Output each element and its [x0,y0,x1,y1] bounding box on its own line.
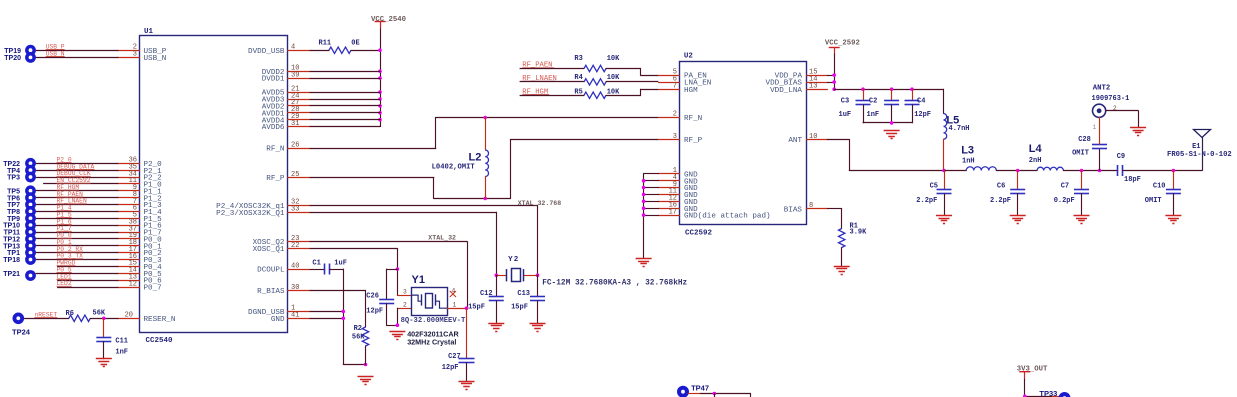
U1 pin 9 P1_1 stub [118,190,140,192]
U1 pin 12 P0_7 stub [118,287,140,289]
svg-text:R2: R2 [354,325,362,333]
svg-text:2.2pF: 2.2pF [916,197,937,205]
svg-text:TP47: TP47 [691,383,709,392]
U2 pin 12 GND stub [658,201,680,203]
ground below C11 [96,358,112,360]
U2 pin 10 ANT stub [806,139,828,141]
capacitor C27 [466,308,468,359]
testpoint TP20 [25,52,36,63]
inductor L5 [943,89,945,114]
U1 pin 14 P0_5 stub [118,273,140,275]
wire VDD pin to rail [310,112,381,114]
wire net RF_LNAEN [36,204,119,206]
svg-text:C13: C13 [517,290,530,298]
wire net LED1 [57,280,118,282]
testpoint TP6 [25,192,36,203]
U2 pin 7 HGM stub [658,89,680,91]
svg-text:R4: R4 [574,74,582,82]
svg-text:13: 13 [809,83,817,91]
power symbol VCC_2540 [375,21,386,23]
U1 pin 27 AVDD2 stub [287,105,310,107]
U1 pin 31 AVDD6 stub [287,126,310,128]
junction node C2 gnd [890,121,894,125]
antenna E1 [1194,130,1211,138]
U2 pin 6 LNA_EN stub [658,82,680,84]
svg-text:R6: R6 [66,310,74,318]
wire VDD pin to rail [310,78,381,80]
ground below C27 [459,381,475,383]
svg-text:R11: R11 [319,39,332,47]
wire R4 to U2 pin6 [606,81,659,83]
svg-text:RF_N: RF_N [266,146,284,154]
wire net RF_N [310,148,437,150]
wire VDD pin to rail [310,105,381,107]
wire DVDD_USB to R11 [310,50,330,52]
wire RF rail segment 3 [1063,170,1118,172]
svg-text:0.2pF: 0.2pF [1054,197,1075,205]
wire R1 to ground [841,247,843,266]
junction node 3V3_OUT [1023,395,1027,397]
wire RF_LNAEN [520,81,585,83]
ground below C7 [1074,215,1090,217]
svg-text:1nH: 1nH [962,158,975,166]
U1 pin 30 R_BIAS stub [287,290,310,292]
svg-text:XTAL_32.768: XTAL_32.768 [518,200,562,207]
svg-text:TP20: TP20 [4,55,21,62]
svg-text:ANT2: ANT2 [1093,85,1111,93]
testpoint TP24 [12,313,24,325]
ground below C13 [530,323,546,325]
junction node L2 top [483,116,487,120]
svg-text:25: 25 [291,171,299,179]
U2 pin 2 RF_N stub [658,117,680,119]
svg-text:22: 22 [291,242,299,250]
U1 pin 6 P1_4 stub [118,211,140,213]
svg-text:1: 1 [1093,124,1097,131]
wire net DEBUG_CLK [36,177,119,179]
wire TP47 net [700,393,751,395]
capacitor C9 [1117,165,1119,176]
svg-text:RF_P: RF_P [684,137,703,145]
svg-text:32MHz Crystal: 32MHz Crystal [407,338,456,347]
svg-text:FC-12M 32.7680KA-A3 , 32.768kH: FC-12M 32.7680KA-A3 , 32.768kHz [542,280,687,288]
svg-text:VCC_2540: VCC_2540 [371,16,406,24]
U1 pin 28 AVDD1 stub [287,112,310,114]
U1 pin 8 P1_2 stub [118,197,140,199]
wire BIAS net [827,208,842,210]
capacitor C5 [944,170,946,190]
testpoint TP21 [25,270,36,281]
svg-text:L0402,OMIT: L0402,OMIT [432,164,476,172]
junction node GND bus [642,179,646,183]
wire VDD pin to rail [310,92,381,94]
junction node decoupling cap [861,87,865,91]
wire net USB_N [36,57,119,59]
U1 pin 11 P1_0 stub [118,183,140,185]
wire net P1_4 [36,211,119,213]
capacitor C7 [1081,170,1083,190]
IC U2 CC2592 body [680,62,807,225]
junction node C28 [1098,169,1102,173]
resistor R4 [584,79,606,85]
ground below C5 [936,215,952,217]
junction node Y1 pin1/C27 [465,306,469,310]
svg-text:C3: C3 [841,98,849,106]
svg-text:GND: GND [271,316,285,324]
svg-text:12pF: 12pF [366,307,383,315]
wire VDD pin to rail [310,99,381,101]
testpoint TP4 [25,165,36,176]
svg-text:AVDD6: AVDD6 [262,124,285,132]
svg-text:TP18: TP18 [3,257,20,264]
wire VDD_LNA rail to L5 [834,89,944,91]
junction node C6 [1016,169,1020,173]
svg-text:39: 39 [291,71,299,79]
svg-text:RESER_N: RESER_N [144,316,176,324]
U1 pin 22 XOSC_Q1 stub [287,248,310,250]
junction node C7 [1080,169,1084,173]
wire RF rail segment 1 [944,170,967,172]
testpoint TP1 [25,247,36,258]
junction node Y2 right [536,273,540,277]
svg-text:CC2540: CC2540 [146,337,174,345]
Y1 pin 4 no-connect X mark [450,291,456,297]
wire net RF_P [310,177,435,179]
svg-text:L2: L2 [469,151,482,163]
U1 pin 15 P0_4 stub [118,266,140,268]
svg-text:4.7nH: 4.7nH [949,125,970,133]
U1 pin 20 RESER_N stub [118,318,140,320]
svg-text:Y1: Y1 [412,274,425,286]
svg-text:56K: 56K [352,333,365,341]
U2 pin 9 GND stub [658,187,680,189]
wire net EN_CC2592 [43,183,118,185]
junction node VCC rail [378,104,382,108]
wire DCOUPL to C1 [310,269,326,271]
testpoint TP13 [25,240,36,251]
wire net P1_6 [36,225,119,227]
junction node Y2 left [495,273,499,277]
inductor L3 [966,167,996,171]
wire VDD pin to rail [310,71,381,73]
U1 pin 33 P2_3/XOSX32K_Q1 stub [287,212,310,214]
wire U2 GND bus [643,173,645,258]
svg-text:2: 2 [673,111,677,119]
U2 pin 5 PA_EN stub [658,75,680,77]
ground at ANT2 pin2 [1130,127,1146,129]
junction node GND bus [642,193,646,197]
capacitor C10 [1173,170,1175,190]
svg-text:VCC_2592: VCC_2592 [825,40,860,48]
junction node decoupling cap [890,87,894,91]
svg-text:1uF: 1uF [334,260,347,268]
svg-text:L4: L4 [1029,143,1043,155]
wire C1 east lead [329,269,344,271]
svg-text:15pF: 15pF [511,304,528,312]
resistor R5 [584,92,606,98]
capacitor C12 [496,275,498,297]
testpoint TP9 [25,213,36,224]
svg-text:CC2592: CC2592 [685,230,713,238]
ground below C2 [884,130,900,132]
wire ANT2 pin1 to C28 [1099,117,1101,129]
junction node VDD_LNA corner [832,87,836,91]
wire net RF_PAEN [36,197,119,199]
U1 pin 1 DGND_USB stub [287,311,310,313]
U1 pin 3 USB_N stub [118,57,140,59]
svg-text:BIAS: BIAS [784,207,803,215]
svg-text:1nF: 1nF [867,111,880,119]
wire R2 to ground junction [365,346,367,365]
junction node VDD_BIAS [832,80,836,84]
junction node pin41 [342,317,346,321]
wire net P0_3_TX [36,259,119,261]
svg-text:OMIT: OMIT [1145,197,1162,205]
U2 pin 4 GND stub [658,180,680,182]
testpoint TP19 [25,45,36,56]
wire RF_PAEN [520,68,585,70]
U1 pin 36 P2_0 stub [118,163,140,165]
svg-text:C27: C27 [448,353,461,361]
svg-text:56K: 56K [93,310,106,318]
inductor L2 [485,117,487,150]
svg-text:31: 31 [291,120,299,128]
svg-text:10: 10 [809,133,817,141]
ground below Y1 pin2 [389,331,405,333]
U2 pin 16 GND stub [658,208,680,210]
svg-text:C28: C28 [1078,136,1091,144]
U2 pin 1 GND stub [658,173,680,175]
U1 pin 10 DVDD2 stub [287,71,310,73]
junction node L2 bottom [483,197,487,201]
wire net P2_0 [36,163,119,165]
wire net P0_1 [36,245,119,247]
U2 pin 8 BIAS stub [806,208,828,210]
wire net PWRGD [57,266,118,268]
junction node R2 foot [364,363,368,367]
svg-text:33: 33 [291,206,299,214]
svg-text:DVDD_USB: DVDD_USB [248,48,285,56]
U2 pin 15 VDD_PA stub [806,75,828,77]
resistor R3 [584,65,606,71]
junction node GND bus [642,213,646,217]
wire net nRESET [24,318,70,320]
svg-text:3: 3 [133,50,137,58]
U1 pin 24 AVDD3 stub [287,99,310,101]
svg-text:17: 17 [669,208,677,216]
svg-text:20: 20 [125,312,133,320]
U1 pin 38 P1_6 stub [118,225,140,227]
svg-text:C11: C11 [115,338,128,346]
wire net XTAL_32 pin 23 [310,241,468,243]
wire net P1_7 [36,232,119,234]
junction node C10 [1172,169,1176,173]
wire net ANT [827,139,850,141]
svg-text:DVDD1: DVDD1 [262,76,285,84]
wire net P0_2_RX [36,252,119,254]
junction node L5/C5 [942,169,946,173]
svg-text:R_BIAS: R_BIAS [257,288,285,296]
U1 pin 16 P0_3 stub [118,259,140,261]
svg-text:C5: C5 [930,183,938,191]
svg-text:USB_N: USB_N [144,55,167,63]
U2 pin 17 GND(die attach pad) stub [658,215,680,217]
wire net XTAL_32.768 pin 32 [310,205,538,207]
svg-text:P0_7: P0_7 [144,285,162,293]
wire decoupling bottom rail [863,122,913,124]
ground below C6 [1010,215,1026,217]
wire gnd run to R2 foot [343,364,366,366]
U1 pin 7 P1_3 stub [118,204,140,206]
svg-text:12pF: 12pF [442,364,459,372]
junction node GND bus [642,200,646,204]
svg-text:DCOUPL: DCOUPL [257,267,285,275]
svg-text:C9: C9 [1117,153,1125,161]
wire RF rail segment 2 [996,170,1038,172]
svg-text:C4: C4 [917,98,925,106]
svg-text:OMIT: OMIT [1072,149,1089,157]
U2 pin 14 VDD_BIAS stub [806,82,828,84]
svg-text:C1: C1 [312,260,320,268]
U1 pin 29 AVDD4 stub [287,119,310,121]
svg-text:GND(die attach pad): GND(die attach pad) [684,213,771,221]
svg-text:3.9K: 3.9K [850,228,868,236]
svg-text:P2_3/XOSX32K_Q1: P2_3/XOSX32K_Q1 [216,210,285,218]
U1 pin 17 P0_2 stub [118,252,140,254]
capacitor C4 [912,89,914,101]
svg-text:TP19: TP19 [4,48,21,55]
junction node C26 bottom [396,323,400,327]
svg-text:2nH: 2nH [1029,157,1042,165]
wire R6 to pin 20 [90,318,119,320]
wire Y1 pin1 to C27 [447,308,467,310]
wire net LED2 [57,287,118,289]
resistor R6 56K [69,315,91,321]
wire net P0_0 [36,238,119,240]
U1 pin 26 RF_N stub [287,148,310,150]
junction node VCC rail [378,97,382,101]
U1 pin 40 DCOUPL stub [287,269,310,271]
svg-text:3: 3 [673,133,677,141]
capacitor C2 [891,89,893,101]
svg-text:TP21: TP21 [3,271,20,278]
U1 pin 21 AVDD5 stub [287,92,310,94]
svg-text:4: 4 [291,44,295,52]
wire Y1 pin2 [397,308,412,310]
wire net RF_HGM [36,190,119,192]
resistor R2 56K [362,327,368,346]
U2 pin 13 VDD_LNA stub [806,89,828,91]
wire R5 to U2 pin7 [606,95,641,97]
svg-text:R3: R3 [574,55,582,63]
svg-text:0E: 0E [351,39,359,47]
svg-text:ANT: ANT [788,137,802,145]
svg-text:E1: E1 [1192,143,1200,151]
junction node VDD_PA [832,73,836,77]
wire VCC_2540 rail vertical [380,28,382,127]
svg-text:C12: C12 [480,290,493,298]
svg-text:XTAL_32: XTAL_32 [428,235,456,242]
wire net P0_5 [36,273,119,275]
U1 pin 32 P2_4/XOSC32K_q1 stub [287,205,310,207]
power symbol VCC_2592 [829,47,840,49]
wire ANT2 pin2 to ground [1106,110,1139,112]
junction node GND bus [642,186,646,190]
svg-text:1nF: 1nF [115,348,128,356]
svg-text:40: 40 [291,262,299,270]
junction node VCC rail [378,118,382,122]
svg-text:C7: C7 [1061,182,1069,190]
crystal Y2 [496,275,507,277]
wire net USB_P [36,50,119,52]
svg-text:7: 7 [673,83,677,91]
capacitor C13 [537,275,539,297]
svg-text:2.2pF: 2.2pF [990,197,1011,205]
ground below C10 [1165,215,1181,217]
ground below C12 [488,323,504,325]
junction node VCC rail [378,76,382,80]
svg-text:TP3: TP3 [7,175,20,182]
wire R3 to U2 pin5 [606,68,641,70]
junction node VCC rail [378,90,382,94]
wire C1 down to GND pins [343,269,345,365]
U2 pin 3 RF_P stub [658,139,680,141]
svg-text:U1: U1 [144,28,154,36]
svg-text:L3: L3 [961,144,974,156]
U1 pin 39 DVDD1 stub [287,78,310,80]
wire net DEBUG_DATA [36,170,119,172]
testpoint TP22 [25,158,36,169]
svg-text:RF_N: RF_N [684,115,702,123]
testpoint TP8 [25,206,36,217]
svg-text:FR05-S1-N-0-102: FR05-S1-N-0-102 [1167,151,1232,159]
svg-text:3: 3 [403,289,407,296]
svg-text:C26: C26 [366,292,379,300]
svg-text:U2: U2 [684,53,694,61]
testpoint TP10 [25,220,36,231]
wire pin 22 to Y1 [310,248,398,250]
U1 pin 19 P0_0 stub [118,238,140,240]
junction node pin1 [342,310,346,314]
testpoint TP18 [25,254,36,265]
testpoint TP7 [25,199,36,210]
svg-text:TP33: TP33 [1039,389,1057,397]
resistor R11 0E [329,47,351,53]
U1 pin 37 P1_7 stub [118,232,140,234]
svg-text:1uF: 1uF [839,111,852,119]
junction node VCC rail [378,48,382,52]
junction node VCC rail [378,111,382,115]
U1 pin 5 P1_5 stub [118,218,140,220]
svg-text:26: 26 [291,141,299,149]
svg-text:30: 30 [291,284,299,292]
crystal Y1 body [412,288,448,316]
junction node GND bus [642,206,646,210]
svg-text:18pF: 18pF [1124,176,1141,184]
IC U1 CC2540 body [140,36,288,333]
U1 pin 41 GND stub [287,318,310,320]
testpoint TP11 [25,227,36,238]
capacitor C26 [386,269,398,271]
wire VCC_2592 to U2 VDD pins [834,54,836,90]
capacitor C28 [1099,148,1101,171]
U1 pin 23 XOSC_Q2 stub [287,241,310,243]
U2 pin 11 GND stub [658,194,680,196]
connector ANT2 [1093,104,1106,117]
svg-text:R5: R5 [574,89,582,97]
svg-text:15pF: 15pF [468,304,485,312]
svg-text:C10: C10 [1153,182,1166,190]
